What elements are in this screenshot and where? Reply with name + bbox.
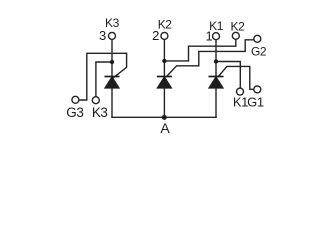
svg-text:A: A: [160, 120, 170, 136]
svg-text:K2: K2: [158, 18, 173, 32]
svg-text:G2: G2: [251, 44, 267, 58]
svg-text:2: 2: [152, 28, 159, 43]
svg-text:G1: G1: [247, 94, 264, 109]
svg-text:K2: K2: [231, 20, 246, 34]
svg-text:1: 1: [205, 28, 212, 43]
svg-text:G3: G3: [66, 105, 83, 120]
svg-text:K3: K3: [92, 105, 108, 120]
svg-text:K1: K1: [233, 94, 248, 109]
svg-text:K3: K3: [105, 16, 120, 30]
svg-text:3: 3: [99, 28, 106, 43]
